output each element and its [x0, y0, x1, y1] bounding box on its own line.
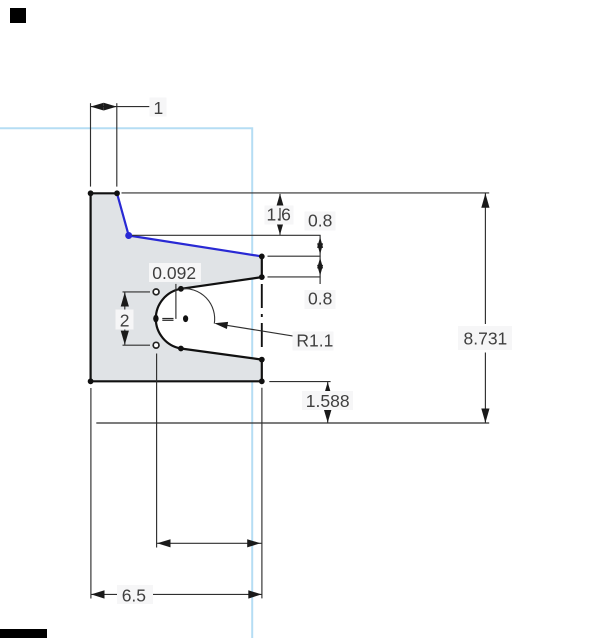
dim 2 ext lines	[123, 291, 151, 293]
0.092 equal bars	[162, 319, 173, 321]
dim 8.731 arrows	[481, 193, 489, 207]
bottom edge	[91, 380, 262, 382]
slot arc	[156, 289, 181, 349]
transparency artifacts of source	[10, 8, 26, 23]
thin reference arc (R1.1)	[181, 289, 215, 324]
top ext line (1.6 / 8.731)	[122, 192, 490, 194]
dim 0.8 vertical line	[319, 235, 321, 284]
blue selected edges	[117, 193, 262, 256]
ext line y=277	[268, 276, 321, 278]
dim 1.6 line	[279, 194, 281, 235]
svg-text:2: 2	[120, 311, 130, 331]
dim 0.8a arrows	[317, 237, 323, 248]
dim 1 arrows	[91, 103, 104, 111]
bottom dim right ext	[261, 388, 263, 599]
vertex points	[88, 190, 265, 384]
blue vertex point	[125, 232, 132, 239]
right upper edge	[261, 256, 263, 277]
slot top edge	[181, 277, 262, 289]
svg-text:0.092: 0.092	[152, 263, 196, 283]
bottom dim arrows	[157, 539, 170, 547]
R1.1 leader	[228, 325, 294, 336]
dim 0.8b arrows	[317, 258, 323, 269]
svg-text:0.8: 0.8	[308, 289, 332, 309]
text backgrounds	[116, 98, 513, 605]
top edge	[91, 192, 117, 194]
dim 2 line	[124, 292, 126, 345]
ext line y=256	[268, 255, 321, 257]
bottom ext line y=423	[96, 422, 489, 424]
sketch plane boundary (light blue)	[0, 128, 252, 638]
svg-text:8.731: 8.731	[464, 328, 508, 348]
svg-text:R1.1: R1.1	[296, 330, 333, 350]
dim 0.092 line	[175, 284, 177, 319]
ext line at blue vertex	[131, 234, 321, 236]
dim 1.588 line	[327, 382, 329, 423]
dim 2 arrows	[121, 292, 129, 306]
dim 1.6 arrows	[276, 194, 284, 208]
profile black edges	[91, 193, 262, 381]
dim 6.5 arrows	[91, 590, 104, 598]
dim 1.588 arrows	[324, 382, 332, 396]
bottom dim line	[157, 542, 262, 544]
dim 1.6 line through text	[279, 208, 281, 221]
dimension texts	[120, 98, 507, 606]
svg-text:1: 1	[154, 98, 164, 118]
dim 6.5 line	[91, 593, 117, 595]
svg-text:1.588: 1.588	[306, 391, 350, 411]
dimension lines	[91, 103, 490, 598]
construction point circles	[153, 289, 159, 348]
dim 6.5 left ext	[90, 388, 92, 599]
dash-dot centerline	[261, 284, 263, 352]
dim 8.731 line	[484, 194, 486, 325]
ext line y=381.6 right	[269, 381, 330, 383]
bottom dim left ext	[156, 354, 158, 548]
arrowheads	[91, 103, 490, 599]
R1.1 arrow	[214, 322, 228, 329]
dim 1 ext lines	[90, 103, 92, 186]
dim 1 line	[91, 106, 150, 108]
left edge	[89, 193, 91, 381]
slot bottom edge	[181, 349, 262, 360]
svg-text:6.5: 6.5	[122, 586, 146, 606]
right lower edge	[261, 360, 263, 382]
svg-text:0.8: 0.8	[308, 210, 332, 230]
svg-text:1.6: 1.6	[267, 205, 291, 225]
profile region fill	[91, 193, 262, 381]
